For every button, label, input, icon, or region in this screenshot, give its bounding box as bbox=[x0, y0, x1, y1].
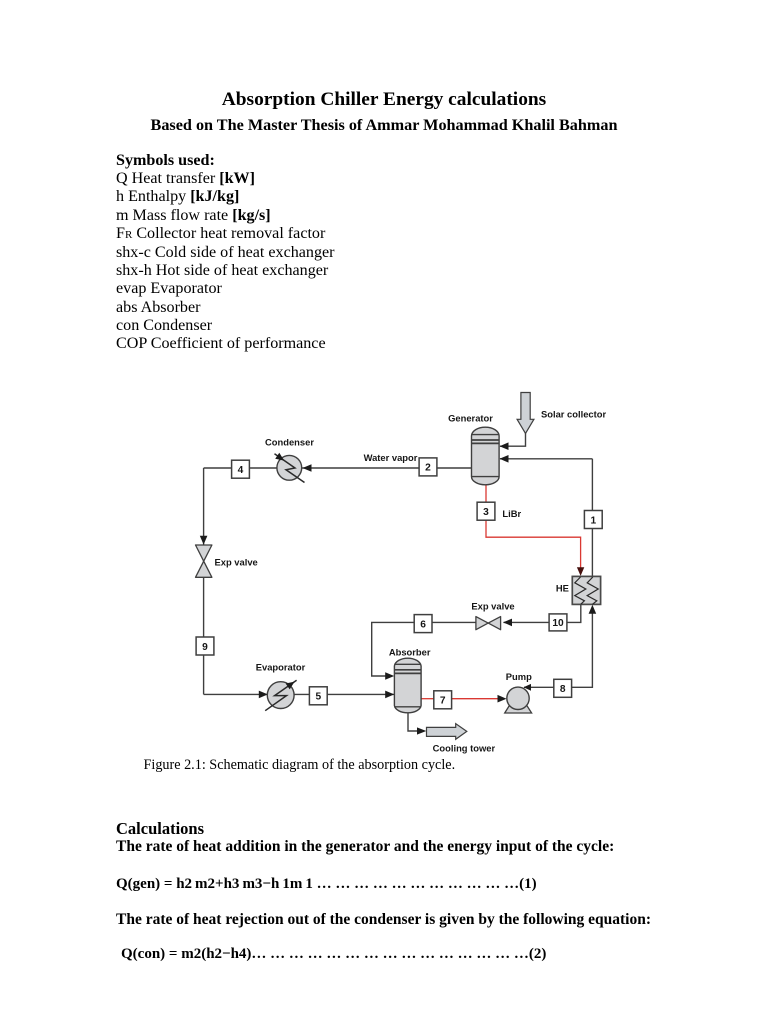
wire bottom-left horizontal line bbox=[204, 693, 395, 695]
svg-text:Exp valve: Exp valve bbox=[471, 601, 514, 612]
svg-text:3: 3 bbox=[483, 507, 489, 518]
svg-text:9: 9 bbox=[202, 642, 208, 653]
wire exp valve to box 6 bbox=[432, 621, 476, 623]
exp valve right (horizontal) bbox=[476, 617, 501, 630]
node 10 box bbox=[549, 614, 567, 631]
svg-text:7: 7 bbox=[440, 696, 446, 707]
wire red absorber to box 7 bbox=[421, 698, 434, 700]
node 5 box bbox=[309, 687, 327, 705]
svg-text:HE: HE bbox=[556, 583, 569, 594]
arrowhead into absorber mid inlet bbox=[385, 691, 394, 699]
wire solar collector to generator bbox=[500, 430, 526, 446]
svg-text:Absorber: Absorber bbox=[389, 646, 431, 657]
node 1 box bbox=[584, 511, 602, 529]
arrowhead into generator lower inlet bbox=[500, 455, 509, 463]
arrowhead into generator upper inlet bbox=[500, 442, 509, 450]
condenser C bbox=[275, 453, 305, 483]
svg-text:Exp valve: Exp valve bbox=[215, 557, 258, 568]
node 2 box bbox=[419, 458, 437, 476]
absorber vessel bbox=[394, 658, 421, 713]
wire right vertical line through node 1 to HE bbox=[591, 459, 593, 576]
wire box 10 to exp valve bbox=[504, 621, 550, 623]
wire box 8 up to HE bottom bbox=[572, 614, 593, 688]
wire pump to box 8 bbox=[524, 686, 554, 688]
calculations heading bbox=[116, 819, 204, 839]
svg-text:Generator: Generator bbox=[448, 412, 493, 423]
arrowhead into right exp valve bbox=[503, 619, 512, 627]
wire top line condenser-generator bbox=[204, 467, 472, 469]
title bbox=[0, 89, 768, 111]
node 6 box bbox=[414, 615, 432, 633]
svg-text:8: 8 bbox=[560, 684, 566, 695]
wire red generator to box 3 to HE bbox=[486, 484, 581, 569]
solar collector block arrow bbox=[517, 393, 534, 434]
svg-text:Condenser: Condenser bbox=[265, 437, 314, 448]
wire HE bottom to box 10 bbox=[567, 604, 581, 622]
paragraph 2 bbox=[116, 911, 651, 929]
node 8 box bbox=[554, 679, 572, 697]
figure caption bbox=[144, 757, 456, 774]
cooling tower block arrow bbox=[427, 724, 467, 740]
svg-text:Pump: Pump bbox=[506, 671, 532, 682]
svg-text:Water vapor: Water vapor bbox=[364, 452, 418, 463]
wire box 6 to absorber top inlet bbox=[372, 622, 415, 676]
subtitle bbox=[0, 116, 768, 135]
equation 2 bbox=[121, 946, 546, 963]
svg-text:Cooling tower: Cooling tower bbox=[433, 742, 496, 753]
node 3 box bbox=[477, 502, 495, 520]
exp valve left (vertical) bbox=[196, 545, 212, 577]
svg-text:4: 4 bbox=[238, 465, 244, 476]
svg-text:2: 2 bbox=[425, 463, 431, 474]
wire red box 7 to pump bbox=[451, 698, 498, 700]
arrowhead down above left exp valve bbox=[200, 536, 208, 545]
svg-text:10: 10 bbox=[552, 618, 564, 629]
node 7 box bbox=[434, 691, 452, 709]
arrowhead into pump from box 7 bbox=[498, 695, 507, 703]
paragraph 1 bbox=[116, 838, 614, 856]
arrowhead at pump top outlet bbox=[524, 684, 532, 691]
arrowhead into cooling tower stub bbox=[417, 727, 426, 734]
arrowhead into evaporator bbox=[259, 691, 268, 699]
arrowhead into condenser bbox=[303, 464, 312, 472]
generator vessel bbox=[472, 427, 500, 485]
pump P bbox=[505, 687, 532, 713]
heat exchanger HE bbox=[572, 576, 600, 604]
node 9 box bbox=[196, 637, 214, 655]
svg-text:LiBr: LiBr bbox=[502, 508, 521, 519]
evaporator E bbox=[265, 680, 296, 711]
symbols list bbox=[116, 152, 335, 353]
equation 1 bbox=[116, 876, 537, 893]
wire absorber bottom to cooling tower bbox=[408, 713, 418, 731]
node 4 box bbox=[232, 460, 250, 478]
arrowhead into absorber top inlet bbox=[385, 672, 394, 680]
svg-text:6: 6 bbox=[420, 619, 426, 630]
arrowhead up into HE bottom bbox=[589, 605, 597, 614]
arrowhead red into HE top bbox=[577, 567, 584, 576]
wire left vertical line bbox=[203, 468, 205, 694]
svg-text:1: 1 bbox=[590, 515, 596, 526]
svg-text:5: 5 bbox=[315, 692, 321, 703]
svg-text:Evaporator: Evaporator bbox=[256, 662, 306, 673]
wire right feed into generator bbox=[500, 458, 592, 460]
node boxes bbox=[196, 458, 602, 709]
svg-text:Solar collector: Solar collector bbox=[541, 408, 606, 419]
